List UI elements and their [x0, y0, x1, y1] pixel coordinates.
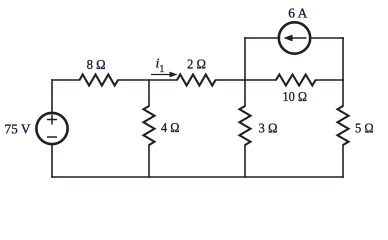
- wire node B to 10ohm: [245, 79, 276, 81]
- wire 5ohm branch upper: [342, 80, 344, 106]
- svg-text:10 Ω: 10 Ω: [283, 90, 308, 105]
- voltage source minus sign: [47, 136, 57, 138]
- voltage source V1 75V circle: [36, 113, 67, 144]
- wire 5ohm branch lower: [342, 145, 344, 177]
- voltage source plus sign: [47, 115, 57, 125]
- svg-text:5 Ω: 5 Ω: [355, 122, 374, 137]
- wire between 8ohm and 2ohm: [118, 79, 177, 81]
- resistor R 5ohm zigzag: [338, 106, 349, 145]
- svg-text:75 V: 75 V: [5, 122, 31, 137]
- resistor R 4ohm zigzag: [144, 106, 155, 145]
- svg-text:2 Ω: 2 Ω: [187, 58, 206, 73]
- resistor R 10ohm zigzag: [276, 75, 316, 86]
- wire 6A loop top-left horizontal: [245, 37, 279, 39]
- current source I1 6A circle: [279, 22, 310, 53]
- wire 4ohm branch lower: [148, 145, 150, 177]
- wire left branch upper: [51, 80, 53, 113]
- svg-text:4 Ω: 4 Ω: [161, 121, 180, 136]
- resistor R 2ohm zigzag: [177, 75, 216, 86]
- wire top-left horizontal segment: [52, 79, 80, 81]
- wire bottom horizontal: [52, 176, 343, 178]
- svg-text:i1: i1: [156, 57, 165, 76]
- wire between 2ohm and node B: [216, 79, 246, 81]
- svg-text:3 Ω: 3 Ω: [259, 122, 278, 137]
- svg-text:8 Ω: 8 Ω: [87, 58, 106, 73]
- wire 6A loop top-right horizontal: [311, 37, 344, 39]
- wire 4ohm branch upper: [148, 80, 150, 106]
- resistor R 3ohm zigzag: [240, 106, 251, 145]
- wire 6A loop right vertical: [342, 38, 344, 80]
- wire 3ohm branch upper: [244, 80, 246, 106]
- resistor R 8ohm zigzag: [80, 75, 119, 86]
- wire 10ohm to node C: [316, 79, 343, 81]
- wire 6A loop left vertical: [244, 38, 246, 80]
- svg-text:6 A: 6 A: [288, 7, 308, 22]
- current source 6A arrow: [284, 35, 307, 42]
- current arrow i1: [151, 72, 178, 78]
- wire left branch lower: [51, 144, 53, 177]
- wire 3ohm branch lower: [244, 145, 246, 177]
